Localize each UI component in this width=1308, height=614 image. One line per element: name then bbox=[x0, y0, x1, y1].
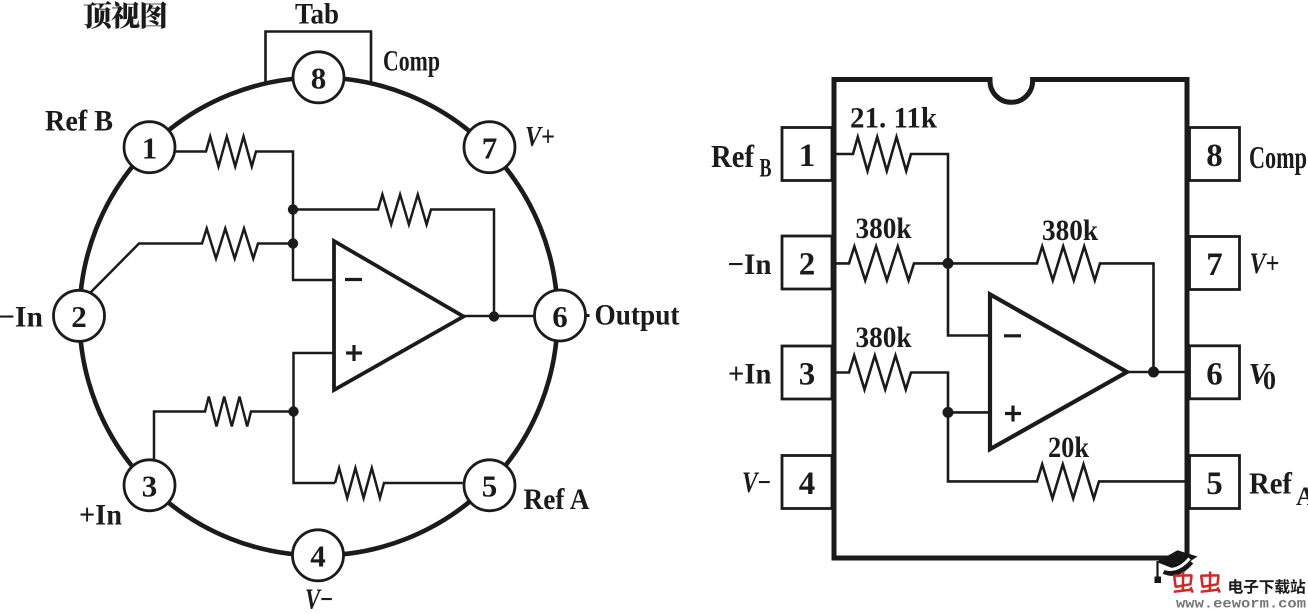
pin 5 circle bbox=[464, 460, 515, 511]
node feedback tap bbox=[288, 204, 298, 214]
pin 8 box bbox=[1190, 128, 1240, 181]
watermark graduation cap bbox=[1155, 550, 1198, 583]
svg-text:+In: +In bbox=[79, 499, 122, 532]
wire: 21.11k resistor from pin1 down to minus node bbox=[832, 137, 948, 263]
svg-text:2: 2 bbox=[799, 247, 816, 283]
can body circle (TO-99 top view) bbox=[80, 78, 558, 556]
node minus junction bbox=[943, 258, 954, 269]
svg-text:6: 6 bbox=[552, 299, 568, 334]
svg-text:www.eeworm.com: www.eeworm.com bbox=[1176, 598, 1306, 610]
pin 8 circle bbox=[293, 52, 344, 103]
svg-text:20k: 20k bbox=[1048, 431, 1089, 464]
svg-text:Ref A: Ref A bbox=[524, 483, 590, 516]
svg-text:+In: +In bbox=[728, 358, 772, 391]
svg-text:V−: V− bbox=[305, 583, 333, 609]
op-amp U2 triangle bbox=[990, 294, 1127, 449]
pin 6 circle bbox=[535, 290, 586, 341]
DIP-8 package body with notch bbox=[834, 80, 1187, 559]
svg-text:B: B bbox=[760, 154, 772, 183]
wire: 380k resistor from pin3 to plus node bbox=[832, 356, 990, 413]
svg-text:1: 1 bbox=[142, 131, 158, 166]
node output junction right bbox=[1148, 367, 1159, 378]
svg-text:Comp: Comp bbox=[1249, 139, 1307, 175]
wire: 380k resistor from pin2 to minus node bbox=[832, 246, 948, 280]
wire: pin3 riser, resistor to plus node bbox=[154, 397, 294, 461]
pin 3 box bbox=[782, 346, 832, 399]
pin 5 box bbox=[1190, 456, 1240, 509]
pin 2 circle bbox=[54, 290, 105, 341]
pin 7 box bbox=[1190, 237, 1240, 290]
svg-text:A: A bbox=[1296, 482, 1308, 511]
wire: plus input feed bbox=[294, 353, 336, 483]
svg-text:5: 5 bbox=[482, 469, 498, 504]
svg-text:3: 3 bbox=[799, 357, 816, 393]
Tab rectangle on can bbox=[266, 32, 372, 86]
svg-text:−In: −In bbox=[728, 248, 772, 281]
svg-text:0: 0 bbox=[1263, 366, 1276, 395]
pin 2 box bbox=[782, 236, 832, 289]
wire: op-amp output to pin6 bbox=[464, 315, 536, 318]
svg-text:2: 2 bbox=[71, 299, 87, 334]
pin 6 box bbox=[1190, 346, 1240, 399]
svg-text:Output: Output bbox=[595, 299, 680, 332]
svg-text:1: 1 bbox=[799, 138, 816, 174]
svg-text:21. 11k: 21. 11k bbox=[850, 102, 937, 135]
svg-text:3: 3 bbox=[142, 469, 158, 504]
pin 3 circle bbox=[124, 460, 175, 511]
svg-text:380k: 380k bbox=[1042, 214, 1098, 247]
pin 1 box bbox=[782, 128, 832, 181]
wire: pin1 lead, resistor, vertical to minus node bbox=[174, 137, 334, 281]
title: top view (Chinese) bbox=[83, 1, 166, 29]
svg-text:4: 4 bbox=[310, 539, 326, 574]
node minus input bbox=[288, 238, 298, 248]
svg-text:380k: 380k bbox=[856, 321, 912, 354]
svg-text:−In: −In bbox=[0, 301, 43, 334]
node output junction bbox=[489, 311, 499, 321]
pin 1 circle bbox=[124, 122, 175, 173]
watermark logo chars red bbox=[1173, 572, 1221, 594]
op-amp U2 plus sign bbox=[1005, 406, 1021, 422]
svg-text:7: 7 bbox=[482, 131, 498, 166]
svg-text:V+: V+ bbox=[1250, 247, 1280, 280]
wire: 380k feedback resistor to output bbox=[948, 246, 1154, 372]
svg-text:Ref B: Ref B bbox=[45, 105, 113, 138]
node plus input bbox=[288, 406, 298, 416]
svg-text:V−: V− bbox=[742, 466, 771, 499]
wire: output to pin6 bbox=[1127, 371, 1190, 374]
svg-text:8: 8 bbox=[1206, 138, 1223, 174]
watermark site name bbox=[1229, 579, 1305, 594]
pin 4 box bbox=[782, 456, 832, 509]
pin 7 circle bbox=[464, 122, 515, 173]
svg-text:380k: 380k bbox=[856, 212, 912, 245]
wire: 20k resistor to pin5 bbox=[948, 412, 1190, 498]
svg-text:V+: V+ bbox=[525, 121, 555, 153]
svg-text:Ref: Ref bbox=[711, 138, 754, 174]
svg-text:6: 6 bbox=[1206, 356, 1223, 392]
wire: feedback resistor to output node bbox=[293, 195, 494, 317]
svg-text:Ref: Ref bbox=[1249, 466, 1293, 501]
svg-text:4: 4 bbox=[799, 466, 816, 502]
wire: minus input feed bbox=[948, 263, 990, 335]
svg-text:Tab: Tab bbox=[295, 0, 339, 31]
svg-text:7: 7 bbox=[1206, 247, 1223, 283]
op-amp U1 plus sign bbox=[346, 345, 362, 361]
wire: pin2 diagonal, resistor to minus node bbox=[90, 229, 293, 294]
wire: pin6 right stub bbox=[586, 314, 590, 317]
svg-text:5: 5 bbox=[1206, 466, 1223, 502]
op-amp U1 minus sign bbox=[345, 278, 362, 281]
pin 4 circle bbox=[293, 530, 344, 581]
svg-text:8: 8 bbox=[311, 61, 327, 96]
svg-text:Comp: Comp bbox=[383, 45, 440, 78]
wire: bottom resistor to pin5 bbox=[335, 468, 463, 498]
op-amp U2 minus sign bbox=[1004, 334, 1021, 337]
op-amp U1 triangle bbox=[334, 241, 464, 390]
node plus junction bbox=[943, 407, 954, 418]
